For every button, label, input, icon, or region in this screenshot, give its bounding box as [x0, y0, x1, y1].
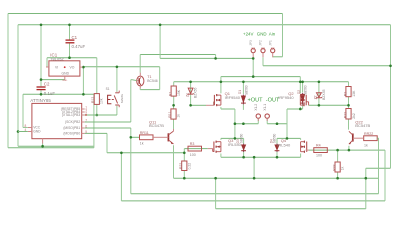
svg-text:GND: GND: [62, 80, 67, 82]
svg-text:VO: VO: [70, 65, 75, 69]
svg-text:X1-2: X1-2: [254, 104, 258, 111]
svg-text:BZX55: BZX55: [322, 89, 326, 99]
svg-text:+OUT: +OUT: [248, 98, 264, 104]
svg-text:2k2: 2k2: [352, 113, 356, 119]
svg-text:C2: C2: [44, 82, 50, 87]
svg-text:GND: GND: [257, 31, 267, 36]
svg-text:D2: D2: [297, 90, 301, 94]
svg-text:VI: VI: [55, 65, 58, 69]
svg-text:R12: R12: [91, 97, 95, 103]
svg-text:0.47uF: 0.47uF: [72, 44, 86, 49]
svg-text:-OUT: -OUT: [266, 98, 280, 104]
svg-text:C1: C1: [72, 35, 78, 40]
svg-text:IRL540: IRL540: [277, 143, 291, 148]
svg-text:RR22: RR22: [364, 132, 373, 136]
svg-text:BC547B: BC547B: [355, 123, 370, 128]
svg-text:(XTAL1)PB3: (XTAL1)PB3: [62, 113, 80, 117]
svg-text:(SCK)PB2: (SCK)PB2: [65, 120, 80, 124]
svg-text:R1: R1: [169, 92, 173, 96]
svg-text:JP2: JP2: [259, 40, 263, 46]
svg-text:Ain: Ain: [269, 31, 276, 36]
svg-text:6: 6: [85, 124, 87, 128]
svg-text:0.22: 0.22: [187, 163, 191, 170]
svg-text:4: 4: [25, 128, 27, 132]
svg-text:Z1: Z1: [185, 93, 189, 97]
svg-text:BZX55: BZX55: [194, 88, 198, 98]
svg-text:1k: 1k: [364, 143, 368, 147]
svg-text:1k: 1k: [140, 141, 144, 145]
svg-text:JP3: JP3: [249, 40, 253, 46]
svg-text:R11: R11: [168, 112, 172, 118]
svg-text:D1: D1: [238, 90, 242, 94]
svg-text:R2: R2: [343, 92, 347, 96]
svg-text:+24V: +24V: [243, 31, 253, 36]
svg-text:SB560: SB560: [273, 134, 277, 144]
svg-text:R3: R3: [190, 142, 195, 146]
svg-text:1k: 1k: [341, 166, 345, 170]
svg-text:RR11: RR11: [140, 131, 149, 135]
svg-text:BC547B: BC547B: [149, 123, 164, 128]
svg-text:MARG: MARG: [120, 93, 124, 103]
svg-text:R22: R22: [343, 112, 347, 118]
svg-text:0.1uF: 0.1uF: [44, 91, 56, 96]
svg-text:S1: S1: [106, 87, 110, 91]
svg-text:GND: GND: [33, 130, 41, 134]
svg-text:13K: 13K: [352, 90, 356, 97]
svg-text:100: 100: [316, 153, 322, 157]
svg-text:X1-1: X1-1: [263, 104, 267, 111]
svg-text:(MOSI)PB0: (MOSI)PB0: [63, 132, 80, 136]
svg-text:R4: R4: [316, 143, 321, 147]
svg-text:SB560: SB560: [244, 85, 248, 95]
svg-text:1k: 1k: [177, 114, 181, 118]
svg-text:ATTINY85: ATTINY85: [30, 98, 51, 103]
svg-text:5: 5: [85, 130, 87, 134]
svg-text:7: 7: [85, 118, 87, 122]
svg-text:JP1: JP1: [268, 40, 272, 46]
svg-text:SB560: SB560: [304, 85, 308, 95]
svg-text:IRF9540: IRF9540: [278, 95, 294, 100]
svg-text:Z2: Z2: [314, 95, 318, 99]
svg-text:(MISO)PB1: (MISO)PB1: [63, 126, 80, 130]
svg-text:GND: GND: [62, 72, 70, 76]
svg-text:100: 100: [190, 153, 196, 157]
svg-text:SB560: SB560: [239, 134, 243, 144]
svg-text:R33: R33: [332, 164, 336, 170]
svg-text:BC546: BC546: [147, 79, 157, 83]
svg-text:IRF9540: IRF9540: [225, 95, 241, 100]
svg-text:10k: 10k: [99, 98, 103, 104]
svg-text:78L05Z: 78L05Z: [50, 57, 64, 62]
svg-text:15K: 15K: [177, 89, 181, 96]
svg-text:R22: R22: [179, 163, 183, 169]
